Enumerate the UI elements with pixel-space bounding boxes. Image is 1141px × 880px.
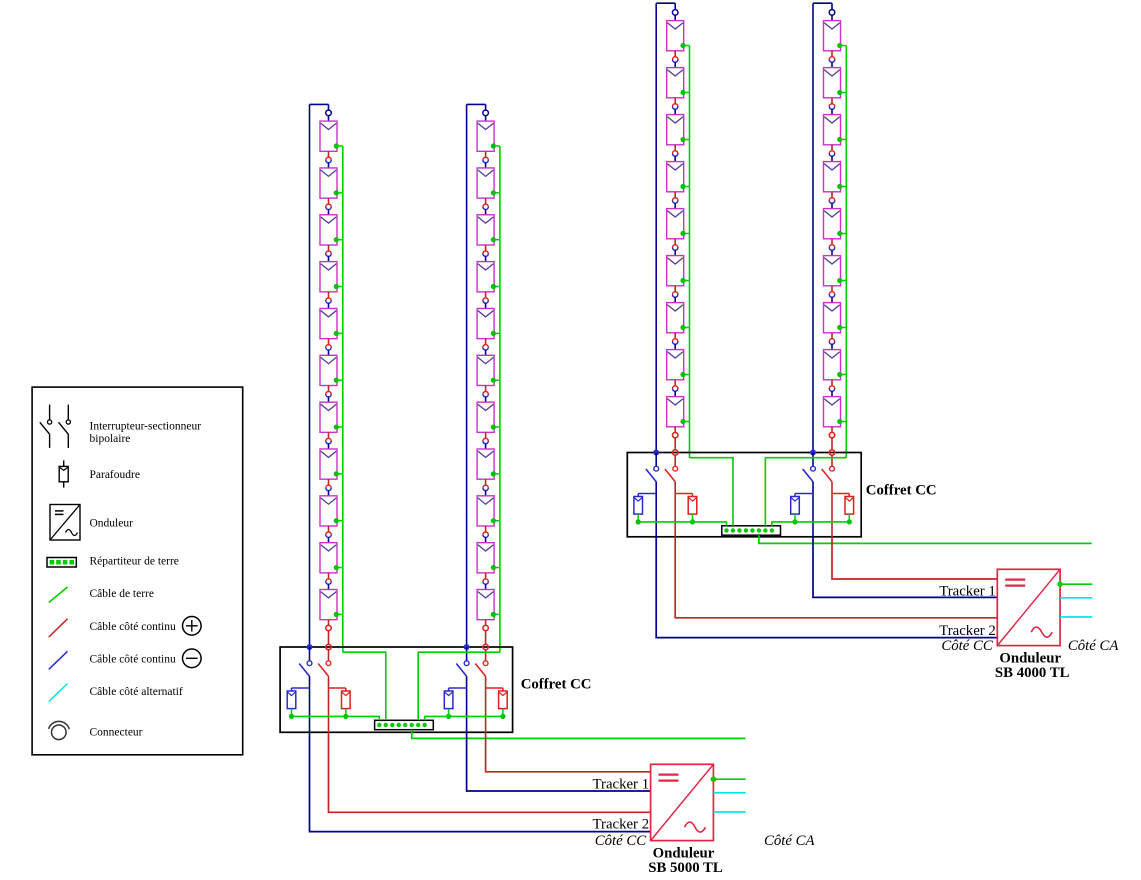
svg-text:Onduleur: Onduleur [90, 517, 134, 529]
svg-text:Interrupteur-sectionneur: Interrupteur-sectionneur [90, 420, 202, 432]
svg-text:Onduleur: Onduleur [653, 845, 715, 861]
svg-text:Côté CC: Côté CC [595, 833, 647, 849]
svg-text:Câble côté alternatif: Câble côté alternatif [90, 686, 183, 698]
svg-text:Côté CA: Côté CA [1068, 638, 1120, 654]
svg-text:SB 4000 TL: SB 4000 TL [995, 665, 1070, 681]
svg-text:Coffret CC: Coffret CC [521, 676, 592, 692]
svg-text:Tracker 2: Tracker 2 [939, 623, 996, 639]
svg-text:Connecteur: Connecteur [90, 726, 143, 738]
svg-text:Parafoudre: Parafoudre [90, 469, 140, 481]
svg-text:Câble côté continu: Câble côté continu [90, 653, 176, 665]
svg-text:Câble côté continu: Câble côté continu [90, 621, 176, 633]
svg-text:Côté CA: Côté CA [764, 833, 816, 849]
svg-text:Tracker 1: Tracker 1 [593, 776, 650, 792]
svg-text:SB 5000 TL: SB 5000 TL [648, 860, 723, 876]
svg-text:Côté CC: Côté CC [941, 638, 993, 654]
svg-text:Câble de terre: Câble de terre [90, 588, 155, 600]
svg-text:Tracker 1: Tracker 1 [939, 583, 996, 599]
svg-text:Répartiteur de terre: Répartiteur de terre [90, 555, 179, 567]
svg-text:Coffret CC: Coffret CC [866, 483, 937, 499]
svg-text:Onduleur: Onduleur [999, 650, 1061, 666]
svg-text:Tracker 2: Tracker 2 [593, 816, 650, 832]
svg-text:bipolaire: bipolaire [90, 433, 131, 445]
